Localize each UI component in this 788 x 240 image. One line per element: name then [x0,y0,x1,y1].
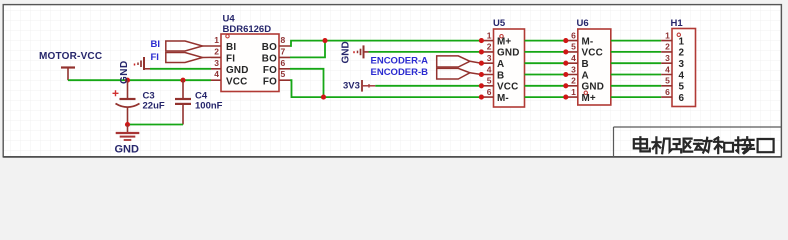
svg-text:U5: U5 [493,18,506,29]
svg-text:4: 4 [665,64,670,74]
svg-text:6: 6 [281,58,286,68]
svg-text:M-: M- [582,36,594,47]
svg-text:1: 1 [679,36,685,47]
svg-text:3: 3 [679,59,685,70]
svg-text:5: 5 [281,69,286,79]
svg-text:5: 5 [571,42,576,52]
junction ground rail at C3 [125,122,130,127]
power flag MOTOR-VCC [39,51,102,80]
svg-text:1: 1 [571,87,576,97]
connector U6 [566,18,611,105]
svg-text:100nF: 100nF [195,101,223,112]
U6 pin numbers [571,30,576,97]
svg-text:BO: BO [262,54,277,65]
capacitor C4 100nF [175,80,223,124]
svg-text:FI: FI [226,54,235,65]
wire 3V3 to U5 pin5 [375,85,481,87]
title block lines [614,127,782,157]
H1 pin names [679,36,685,104]
svg-text:GND: GND [497,48,520,59]
connector H1 [661,18,695,107]
svg-text:1: 1 [214,35,219,45]
wires U6 to H1 [611,41,661,98]
H1 pin numbers [665,30,670,97]
svg-text:VCC: VCC [226,76,247,87]
U4 pin names [226,42,277,87]
connector U5 [481,18,524,107]
power port 3V3 [343,80,375,92]
svg-text:5: 5 [665,76,670,86]
svg-text:2: 2 [487,42,492,52]
U5 pin names [497,36,520,104]
svg-text:5: 5 [487,76,492,86]
svg-text:2: 2 [665,42,670,52]
svg-text:U4: U4 [223,14,236,25]
svg-text:7: 7 [281,46,286,56]
svg-text:3: 3 [571,64,576,74]
svg-text:3: 3 [214,58,219,68]
svg-text:BI: BI [226,42,236,53]
svg-text:6: 6 [665,87,670,97]
U5 pin numbers [487,30,492,97]
U5 pin junction dots [479,38,484,100]
wire BO net pin7 riser [290,41,325,58]
svg-text:GND: GND [341,41,352,63]
svg-text:FI: FI [151,52,159,63]
svg-text:3V3: 3V3 [343,80,360,91]
sheet border frame [3,5,781,157]
wire BO net pin8 to U5 pin1 [290,41,481,46]
svg-text:6: 6 [571,30,576,40]
svg-text:M+: M+ [582,93,596,104]
power port GND rotated at U5 [341,41,369,63]
svg-text:U6: U6 [577,18,589,29]
net flag ENCODER-B [371,67,482,79]
svg-text:6: 6 [487,87,492,97]
svg-text:1: 1 [487,30,492,40]
svg-text:B: B [582,59,589,70]
capacitor C3 22uF [113,80,165,124]
svg-text:B: B [497,70,504,81]
svg-text:4: 4 [214,69,219,79]
svg-text:ENCODER-B: ENCODER-B [371,67,429,78]
svg-text:A: A [497,59,504,70]
wire FO net pin6 [290,69,324,97]
junction C3 on VCC rail [125,78,130,83]
wire FO net pin5 bottom run [290,80,481,97]
net flag FI [151,52,212,63]
svg-text:FO: FO [263,76,277,87]
svg-text:3: 3 [487,53,492,63]
svg-text:2: 2 [571,76,576,86]
junction C4 on VCC rail [180,78,185,83]
svg-text:A: A [582,70,589,81]
svg-text:BO: BO [262,42,277,53]
svg-text:8: 8 [281,35,286,45]
net flag ENCODER-A [371,55,482,67]
power port GND rotated at U4 [119,57,150,84]
svg-text:M-: M- [497,93,509,104]
wire ground rail C3-C4 [128,124,184,126]
svg-text:22uF: 22uF [143,101,165,112]
sheet background [0,0,788,166]
svg-text:VCC: VCC [582,48,603,59]
svg-text:4: 4 [571,53,576,63]
svg-text:GND: GND [115,144,140,156]
U4 pin numbers [214,35,285,79]
svg-text:3: 3 [665,53,670,63]
wire GND to U4 pin3 [150,68,211,70]
wires U5 to U6 [525,41,566,98]
IC U4 BDR6126D [211,14,290,92]
svg-text:6: 6 [679,93,685,104]
title text 电机驱动和接口 [634,137,774,153]
ground GND earth symbol [115,125,140,156]
junction BO net [322,38,327,43]
svg-text:FO: FO [263,65,277,76]
junction FO net [321,95,326,100]
svg-text:GND: GND [119,60,130,84]
net flag BI [151,39,212,51]
svg-text:M+: M+ [497,36,511,47]
svg-text:GND: GND [582,82,605,93]
wire MOTOR-VCC rail to U4 VCC [68,79,211,81]
svg-text:2: 2 [679,48,685,59]
svg-text:H1: H1 [671,18,684,29]
svg-text:GND: GND [226,65,249,76]
svg-text:VCC: VCC [497,82,518,93]
svg-text:5: 5 [679,82,685,93]
wire GND to U5 pin2 [369,51,482,53]
svg-text:4: 4 [679,70,685,81]
svg-text:2: 2 [214,46,219,56]
svg-text:ENCODER-A: ENCODER-A [371,55,429,66]
svg-text:4: 4 [487,64,492,74]
U6 pin names [582,36,605,104]
U6 pin junction dots [563,38,568,100]
svg-text:MOTOR-VCC: MOTOR-VCC [39,51,102,62]
svg-text:1: 1 [665,30,670,40]
svg-text:BI: BI [151,39,161,50]
